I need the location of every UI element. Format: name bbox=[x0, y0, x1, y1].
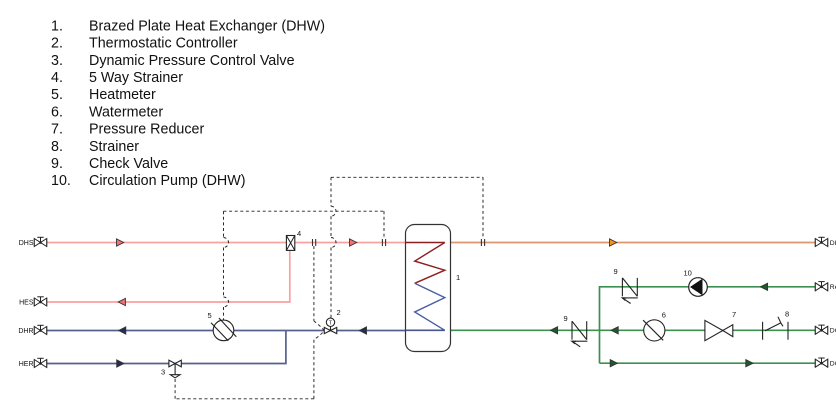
flange sensor pocket on DHW outlet at 483 bbox=[481, 239, 484, 246]
svg-text:Strainer: Strainer bbox=[89, 139, 139, 155]
valve DHR bbox=[34, 325, 46, 334]
svg-text:3: 3 bbox=[161, 368, 165, 377]
svg-text:8: 8 bbox=[785, 310, 789, 319]
arrow DHS right at 120 bbox=[117, 239, 124, 246]
arrow row4 green right at 749 bbox=[746, 360, 753, 367]
svg-text:DHW: DHW bbox=[830, 240, 836, 247]
wire recirculation pipe (green) row2 bbox=[600, 287, 816, 363]
flange sensor pocket on DHS at 384 bbox=[382, 239, 385, 246]
arrow row3 green left at 554 bbox=[551, 327, 558, 334]
arrow HER right at 120 bbox=[117, 360, 124, 367]
svg-text:10: 10 bbox=[684, 269, 692, 278]
svg-text:5 Way Strainer: 5 Way Strainer bbox=[89, 70, 183, 86]
svg-text:9: 9 bbox=[614, 267, 618, 276]
arrow DHR left at 122 bbox=[119, 327, 126, 334]
svg-text:Pressure Reducer: Pressure Reducer bbox=[89, 122, 204, 138]
valve right edge DHW bbox=[815, 237, 827, 246]
wire HER pipe (slate) with riser to DHR bbox=[47, 331, 286, 364]
svg-text:Rec: Rec bbox=[830, 284, 836, 291]
svg-text:T: T bbox=[329, 321, 333, 327]
svg-text:5: 5 bbox=[208, 311, 212, 320]
control line loop A (sensor on DHW outlet to thermostatic valve 2) bbox=[331, 177, 483, 318]
arrow row3 green left at 615 bbox=[611, 327, 618, 334]
wire HES pipe (salmon) with riser to strainer 4 bbox=[47, 251, 290, 303]
wire DHW outlet pipe (orange) bbox=[450, 242, 815, 244]
svg-text:7: 7 bbox=[732, 310, 736, 319]
arrow DHR left at 363 bbox=[359, 327, 366, 334]
arrow HES left at 122 bbox=[118, 298, 125, 305]
svg-text:9.: 9. bbox=[51, 156, 63, 172]
svg-text:6.: 6. bbox=[51, 104, 63, 120]
control line branch B (heatmeter sensor) bbox=[224, 211, 385, 320]
svg-text:DHS: DHS bbox=[19, 240, 34, 247]
svg-text:3.: 3. bbox=[51, 53, 63, 69]
svg-text:Watermeter: Watermeter bbox=[89, 104, 163, 120]
svg-text:HER: HER bbox=[19, 361, 34, 368]
svg-text:2.: 2. bbox=[51, 36, 63, 52]
svg-text:6: 6 bbox=[662, 311, 666, 320]
arrow DHW orange right at 613 bbox=[610, 239, 617, 246]
svg-text:9: 9 bbox=[564, 314, 568, 323]
arrow DHS right at 353 bbox=[350, 239, 357, 246]
svg-text:2: 2 bbox=[337, 308, 341, 317]
svg-text:8.: 8. bbox=[51, 139, 63, 155]
pump U10 (circulation pump) bbox=[689, 278, 708, 297]
svg-text:Dynamic Pressure Control Valve: Dynamic Pressure Control Valve bbox=[89, 53, 295, 69]
legend bbox=[51, 18, 325, 189]
svg-text:DCW: DCW bbox=[830, 328, 836, 335]
valve right edge D row4 bbox=[815, 358, 827, 367]
pressure reducer U7 bbox=[705, 320, 733, 340]
svg-text:Thermostatic Controller: Thermostatic Controller bbox=[89, 36, 238, 52]
svg-text:DHR: DHR bbox=[18, 328, 33, 335]
valve right edge DCW row3 bbox=[815, 325, 827, 334]
svg-text:7.: 7. bbox=[51, 122, 63, 138]
svg-text:Check Valve: Check Valve bbox=[89, 156, 168, 172]
wire DHS supply pipe (salmon) bbox=[47, 242, 406, 244]
pressure control valve U3 bbox=[169, 360, 181, 378]
svg-text:Circulation Pump (DHW): Circulation Pump (DHW) bbox=[89, 173, 246, 189]
control line loop C (DHS sensor to valve 2 and valve 3) bbox=[175, 246, 324, 399]
strainer U4 (5 way strainer box) bbox=[286, 236, 294, 251]
wire cold water pipe (green) row3 bbox=[450, 329, 815, 331]
svg-text:1: 1 bbox=[456, 273, 460, 282]
strainer U8 bbox=[763, 317, 788, 340]
wire DHR pipe (slate) bbox=[47, 330, 406, 332]
svg-text:HES: HES bbox=[19, 299, 34, 306]
svg-text:DCW: DCW bbox=[830, 361, 836, 368]
valve DHS (left edge isolation valve) bbox=[34, 237, 46, 246]
heat exchanger U1 body bbox=[406, 225, 451, 352]
valve HER bbox=[34, 358, 46, 367]
arrow row4 green right at 614 bbox=[610, 360, 617, 367]
wire row4 pipe (green) bbox=[600, 362, 816, 364]
arrow Rec green left at 764 bbox=[761, 283, 768, 290]
svg-text:Brazed Plate Heat Exchanger (D: Brazed Plate Heat Exchanger (DHW) bbox=[89, 18, 325, 34]
svg-text:5.: 5. bbox=[51, 87, 63, 103]
svg-text:4: 4 bbox=[297, 229, 301, 238]
thermostatic valve U2 bbox=[324, 318, 337, 334]
flange sensor pocket on DHS at 314 bbox=[313, 239, 316, 246]
svg-text:1.: 1. bbox=[51, 18, 63, 34]
check valve U9a (row2) bbox=[622, 278, 638, 304]
svg-text:10.: 10. bbox=[51, 173, 71, 189]
heatmeter U5 bbox=[211, 318, 236, 341]
valve right edge Rec bbox=[815, 282, 827, 291]
svg-text:4.: 4. bbox=[51, 70, 63, 86]
valve HES bbox=[34, 297, 46, 306]
svg-text:Heatmeter: Heatmeter bbox=[89, 87, 156, 103]
watermeter U6 bbox=[643, 320, 665, 341]
check valve U9b (row3) bbox=[572, 321, 588, 347]
